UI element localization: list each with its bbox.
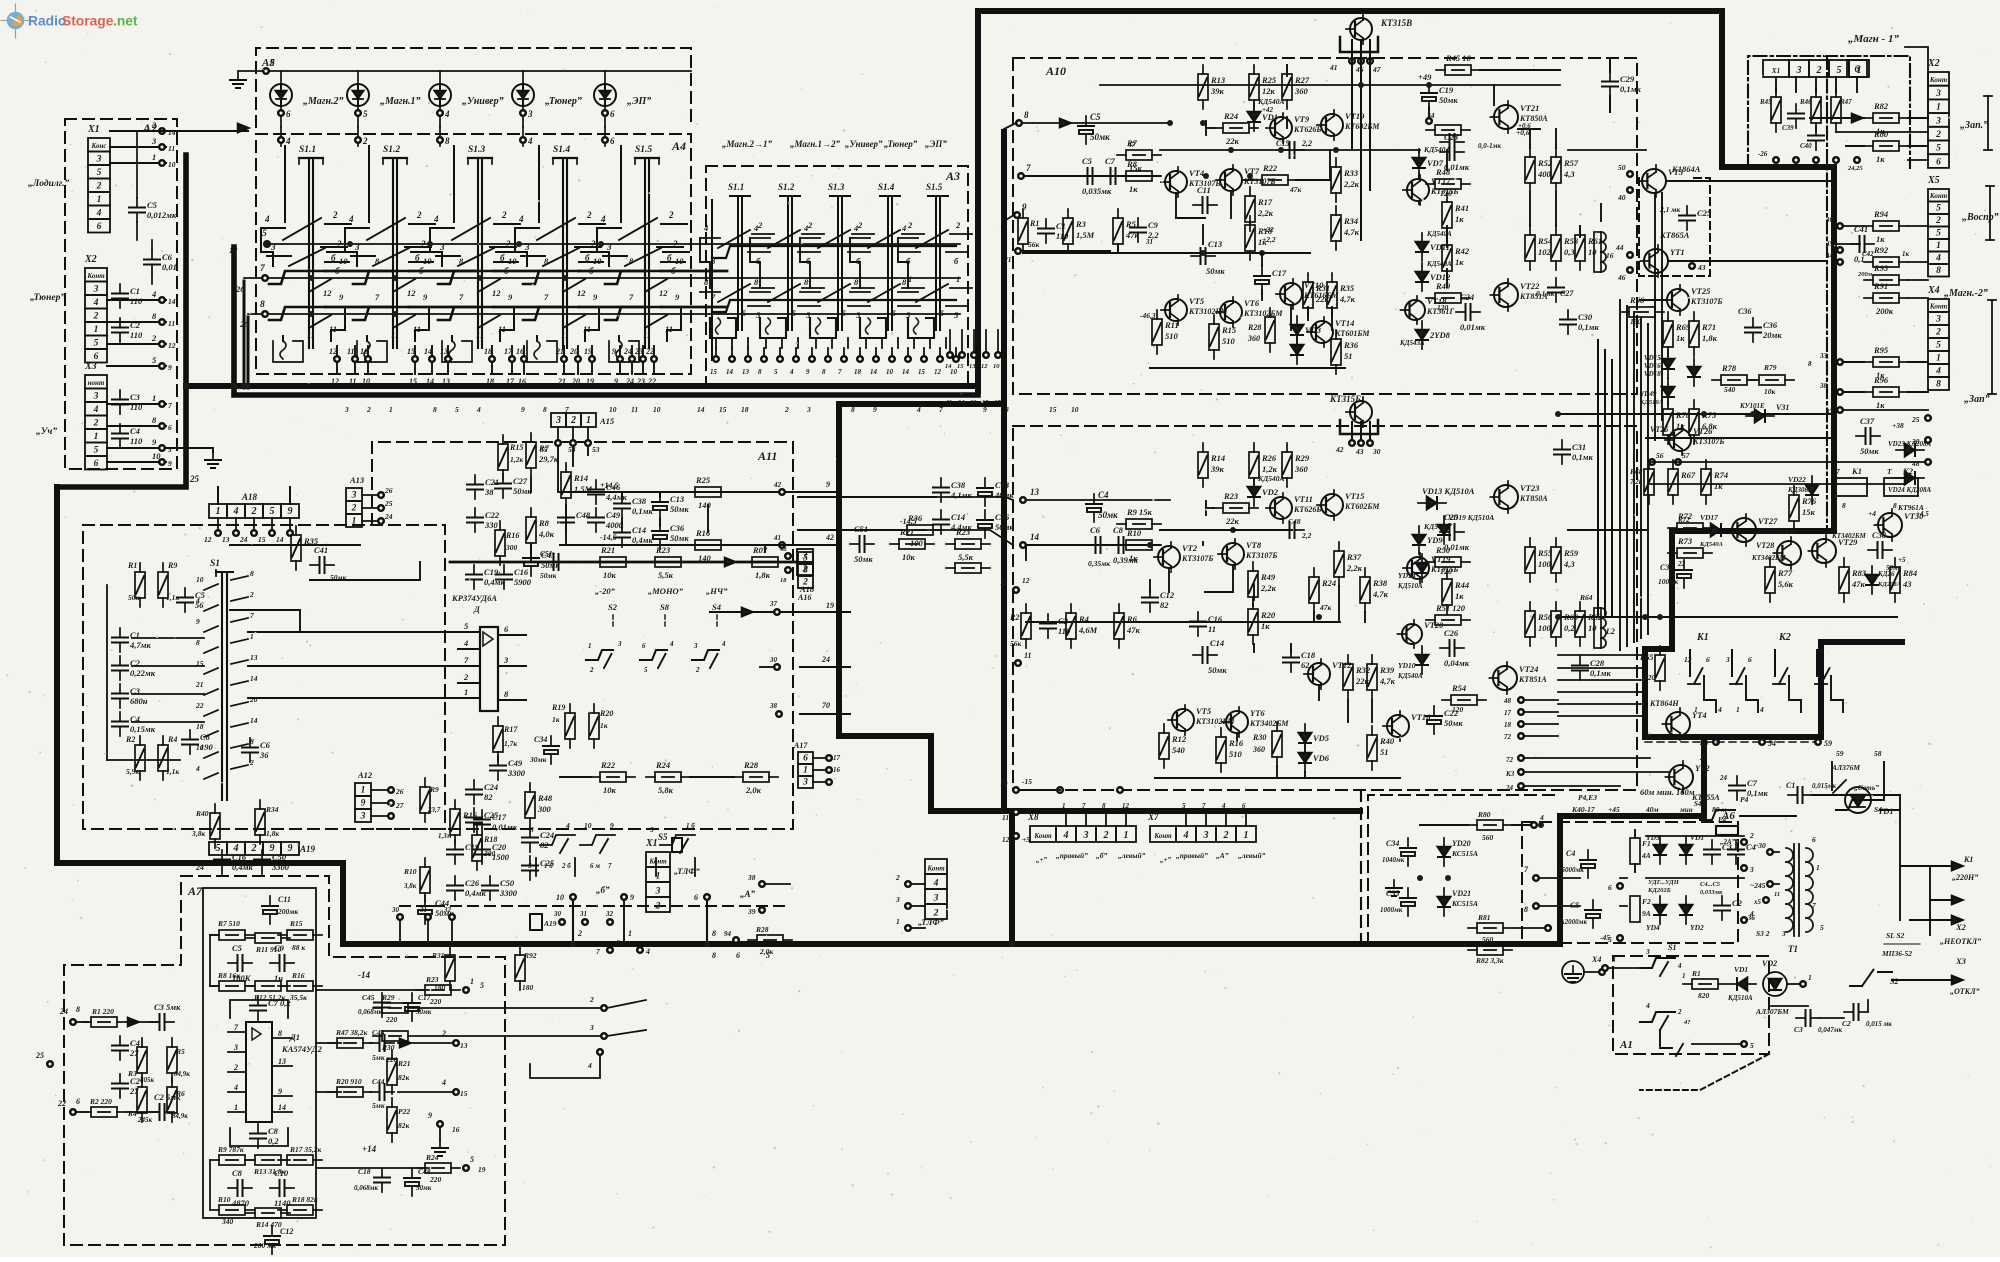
svg-text:C14: C14 (1210, 638, 1224, 648)
svg-text:нонт: нонт (88, 379, 105, 387)
svg-text:КТ3107Б: КТ3107Б (1245, 551, 1277, 560)
svg-text:1: 1 (1124, 830, 1129, 841)
svg-text:9: 9 (873, 405, 877, 414)
resistor R71 (1689, 312, 1718, 356)
svg-text:-46,3: -46,3 (1140, 311, 1156, 320)
capacitor C19 mid (447, 840, 480, 864)
svg-text:43: 43 (1902, 579, 1912, 589)
transistor VT26 (1650, 425, 1724, 455)
capacitor C4 ch2 (1086, 490, 1118, 522)
svg-text:5: 5 (94, 339, 99, 349)
LED VD4 indicator (512, 71, 582, 127)
svg-text:X4: X4 (1927, 285, 1940, 296)
svg-text:4: 4 (1221, 802, 1226, 810)
capacitor C51 rail (540, 549, 568, 580)
resistor R36 r (898, 513, 942, 548)
resistor R18 a14col (472, 826, 497, 870)
svg-text:C14: C14 (951, 512, 965, 522)
svg-text:2: 2 (151, 333, 157, 343)
svg-text:0,2: 0,2 (1564, 623, 1575, 633)
svg-text:2: 2 (251, 506, 257, 517)
svg-text:12: 12 (659, 288, 668, 298)
svg-text:R23: R23 (1223, 491, 1239, 501)
svg-text:„ТЛФ”: „ТЛФ” (918, 917, 945, 927)
svg-text:44: 44 (1615, 243, 1624, 252)
resistor R94 (1825, 209, 1928, 244)
svg-text:КД510А: КД510А (1639, 399, 1664, 406)
capacitor C2 a7 (112, 1074, 141, 1098)
connector A17 (793, 741, 813, 788)
svg-text:40: 40 (1699, 739, 1708, 748)
svg-text:КТ602БМ: КТ602БМ (1344, 122, 1380, 131)
svg-text:A7: A7 (187, 884, 203, 898)
svg-text:4000: 4000 (605, 520, 624, 530)
svg-text:4: 4 (96, 209, 102, 219)
svg-text:R47 38,2к: R47 38,2к (335, 1028, 368, 1037)
svg-text:24: 24 (1505, 784, 1514, 792)
svg-text:14: 14 (424, 347, 432, 356)
svg-text:R9: R9 (167, 561, 177, 570)
svg-text:25: 25 (384, 499, 393, 508)
svg-text:10: 10 (1588, 623, 1597, 633)
pin 6 psu (1608, 883, 1623, 892)
svg-text:4: 4 (600, 214, 606, 224)
thick border A2 right edge (57, 155, 186, 487)
svg-text:R9: R9 (429, 785, 439, 794)
connector X3 left (84, 361, 107, 470)
wires ladder to IC (248, 632, 458, 698)
label Уч (36, 427, 57, 437)
capacitor C4 a7 (150, 1092, 181, 1120)
svg-text:Р4,Е3: Р4,Е3 (1578, 793, 1597, 802)
svg-text:10: 10 (675, 256, 684, 266)
svg-text:94: 94 (724, 930, 732, 938)
svg-text:110: 110 (130, 330, 143, 340)
svg-text:4: 4 (93, 298, 99, 308)
diode VD14 (1397, 554, 1428, 590)
svg-text:VT15: VT15 (1345, 491, 1365, 501)
svg-text:2: 2 (1749, 831, 1754, 840)
switch A3 S1.2 (750, 182, 824, 348)
pins 2 1 bus right (1057, 787, 1123, 793)
capacitor C10 a7 (270, 1168, 294, 1208)
svg-text:2: 2 (93, 419, 99, 429)
svg-text:8: 8 (278, 1029, 282, 1038)
capacitor C49 a14 (588, 508, 624, 532)
svg-text:2: 2 (784, 405, 789, 414)
transistor VT2 drv (1665, 761, 1720, 802)
pins right psu (1741, 831, 1754, 923)
capacitor C3 s2 (1794, 1010, 1843, 1034)
svg-text:VT4: VT4 (1189, 168, 1204, 178)
svg-text:100: 100 (1538, 623, 1552, 633)
svg-text:R17: R17 (1257, 197, 1273, 207)
svg-text:2,2к: 2,2к (1260, 583, 1277, 593)
capacitor C6 ch1 (1078, 156, 1112, 196)
svg-text:VD19 КД510А: VD19 КД510А (1448, 513, 1494, 522)
svg-text:С25: С25 (1697, 208, 1712, 218)
svg-text:A3: A3 (945, 169, 960, 183)
svg-text:82: 82 (484, 792, 493, 802)
svg-text:С12: С12 (280, 1227, 293, 1236)
svg-text:R57: R57 (1563, 158, 1579, 168)
svg-text:R71: R71 (1701, 322, 1716, 332)
transistor VT28 (1751, 537, 1801, 569)
svg-text:5: 5 (97, 168, 102, 178)
svg-text:С51: С51 (540, 549, 553, 558)
svg-text:26: 26 (395, 787, 404, 796)
svg-text:8: 8 (433, 405, 437, 414)
transistor VT8 ch2 (1218, 539, 1277, 569)
resistor R30 ch2 (1252, 722, 1282, 766)
svg-text:15к: 15к (1802, 507, 1816, 517)
svg-text:13: 13 (278, 1057, 286, 1066)
svg-text:11: 11 (391, 330, 399, 340)
wire minus145 rail (560, 533, 841, 545)
wires C1-C4 to S1 (132, 638, 204, 722)
svg-text:3: 3 (1749, 865, 1754, 874)
svg-text:17: 17 (506, 377, 515, 386)
switch S1.3 upper (430, 145, 522, 348)
svg-text:1: 1 (588, 642, 592, 650)
resistor R48 (1426, 167, 1470, 198)
svg-text:54: 54 (568, 445, 576, 454)
svg-text:50мк: 50мк (1206, 266, 1225, 276)
svg-text:VT26: VT26 (1650, 425, 1668, 434)
label pin 25 (189, 474, 200, 484)
svg-text:0,15мк: 0,15мк (130, 724, 156, 734)
svg-text:„левый”: „левый” (1118, 851, 1146, 860)
wires right edge long (1648, 410, 1928, 484)
svg-text:10: 10 (362, 377, 370, 386)
svg-text:C8: C8 (268, 1126, 279, 1136)
pin 24 a7 (59, 1005, 88, 1025)
resistor R47bis (1426, 125, 1470, 135)
capacitor C14 ch2 (1193, 638, 1227, 675)
svg-text:9: 9 (806, 368, 810, 376)
svg-text:8: 8 (445, 136, 450, 146)
svg-text:120: 120 (1440, 189, 1452, 198)
svg-text:3,8к: 3,8к (403, 882, 417, 890)
svg-text:110: 110 (130, 436, 143, 446)
resistor R9 ch2 (1117, 507, 1161, 529)
svg-text:R39: R39 (1379, 665, 1395, 675)
resistor R2 ch2 (1009, 604, 1031, 648)
A15 pins (540, 427, 600, 454)
capacitor C41 mid (310, 545, 347, 582)
svg-text:1,1к: 1,1к (166, 767, 179, 776)
svg-text:1: 1 (1062, 802, 1066, 810)
svg-text:560: 560 (1482, 935, 1494, 944)
svg-text:14: 14 (276, 535, 284, 544)
svg-text:C36: C36 (995, 512, 1010, 522)
svg-text:C2: C2 (130, 1076, 141, 1086)
svg-text:R54: R54 (1451, 683, 1466, 693)
svg-text:6: 6 (286, 109, 291, 119)
svg-text:C37: C37 (1860, 416, 1875, 426)
resistor R49b ch2 (1248, 562, 1277, 606)
svg-text:55: 55 (540, 445, 548, 454)
svg-text:К40-17: К40-17 (1571, 805, 1595, 814)
svg-text:C19: C19 (1439, 85, 1454, 95)
svg-text:50мк: 50мк (1208, 665, 1227, 675)
svg-text:1000мк: 1000мк (1380, 906, 1403, 914)
svg-text:30: 30 (769, 656, 778, 664)
svg-text:КТ851А: КТ851А (1518, 675, 1547, 684)
svg-text:13: 13 (222, 535, 230, 544)
svg-text:„Зап.”: „Зап.” (1960, 120, 1988, 131)
resistor R12 ch2 (1159, 724, 1187, 768)
svg-text:9: 9 (630, 893, 634, 902)
svg-text:1,8к: 1,8к (1702, 333, 1718, 343)
svg-text:C5: C5 (1090, 112, 1101, 122)
label C4C5 (1700, 881, 1723, 896)
svg-text:Конт: Конт (86, 272, 105, 280)
svg-text:2: 2 (589, 666, 594, 674)
svg-text:С17: С17 (492, 812, 507, 822)
wires b to bus (573, 900, 716, 944)
svg-text:360: 360 (1294, 86, 1309, 96)
svg-text:КД540А: КД540А (1426, 260, 1452, 268)
resistor R45 (1436, 53, 1560, 75)
svg-text:59: 59 (1836, 749, 1844, 758)
capacitor C1 ch1 (1038, 219, 1069, 243)
capacitor C3 psu (1704, 840, 1733, 864)
pin 10 ch1 (1003, 248, 1110, 264)
capacitor C8 mid (182, 730, 214, 754)
svg-text:0,1мк: 0,1мк (1578, 322, 1599, 332)
svg-text:C38: C38 (1872, 530, 1887, 540)
svg-text:5: 5 (792, 309, 796, 318)
svg-text:510: 510 (1222, 336, 1236, 346)
svg-text:C1: C1 (1786, 781, 1795, 790)
resistor R4 mid (158, 735, 179, 780)
svg-text:1: 1 (1808, 973, 1812, 982)
svg-text:„Магн.2→1”: „Магн.2→1” (722, 139, 772, 149)
module A10 lower channel outline (1013, 426, 1637, 790)
bracket magn2 (1988, 300, 1996, 394)
wire A3 left edge (711, 200, 713, 360)
svg-text:41: 41 (773, 534, 781, 542)
svg-text:4: 4 (565, 821, 570, 830)
svg-text:0,015мк: 0,015мк (1812, 782, 1837, 790)
svg-text:56к: 56к (1010, 639, 1022, 648)
svg-text:4,7к: 4,7к (1379, 676, 1396, 686)
svg-text:540: 540 (1172, 745, 1186, 755)
capacitor C33 (1658, 560, 1692, 588)
svg-text:1: 1 (956, 274, 960, 284)
svg-text:10: 10 (609, 405, 617, 414)
capacitor C36 rail (652, 521, 689, 549)
switch S2 -20 (586, 586, 622, 674)
svg-text:2: 2 (1816, 65, 1822, 76)
svg-text:8: 8 (76, 1005, 80, 1014)
svg-text:18: 18 (1504, 721, 1512, 729)
resistor R84 (1890, 558, 1917, 602)
svg-text:10: 10 (339, 256, 348, 266)
resistor R34 mid (255, 800, 279, 844)
capacitor C45 a7 (358, 993, 390, 1017)
svg-text:47к: 47к (1289, 185, 1302, 194)
svg-text:C41: C41 (1854, 224, 1868, 234)
svg-text:16: 16 (518, 377, 526, 386)
svg-text:0,012мк: 0,012мк (147, 210, 177, 220)
resistor R23 a7 (416, 975, 484, 1006)
svg-text:340: 340 (221, 1217, 234, 1226)
svg-text:2: 2 (1935, 130, 1941, 140)
svg-text:4,7к: 4,7к (1343, 227, 1360, 237)
svg-text:300: 300 (505, 543, 518, 552)
svg-text:1: 1 (1244, 830, 1249, 841)
svg-text:R16: R16 (505, 531, 519, 540)
svg-text:R28: R28 (1247, 323, 1261, 332)
svg-text:КА574УД2: КА574УД2 (281, 1044, 323, 1054)
svg-text:10: 10 (1000, 779, 1008, 788)
wire a14 exit3 (769, 701, 850, 717)
capacitor C28 (1572, 656, 1611, 680)
svg-text:КД510А: КД510А (1397, 582, 1423, 590)
switch S6 (649, 822, 695, 876)
relay K2 (1884, 466, 1929, 518)
wire LED2 to A4 (355, 127, 368, 146)
svg-text:C6: C6 (1090, 525, 1101, 535)
wire ch1 rail4647 (1352, 58, 1370, 240)
resistor R48 mid (525, 783, 553, 827)
svg-text:R15: R15 (289, 919, 303, 928)
svg-text:8: 8 (1808, 360, 1812, 368)
pins 38 39 (747, 873, 790, 916)
resistor R17 ch1 (1245, 187, 1274, 231)
svg-text:УДГ...УДН: УДГ...УДН (1648, 879, 1680, 886)
svg-text:15: 15 (719, 405, 727, 414)
svg-text:„Магн - 1”: „Магн - 1” (1848, 33, 1899, 45)
svg-text:X1: X1 (645, 838, 658, 849)
wire mid right rail2 (1646, 437, 1830, 439)
svg-text:2: 2 (1103, 830, 1109, 841)
resistor R7 a7 (210, 919, 254, 940)
bracket vospr (1986, 186, 1994, 240)
svg-text:6: 6 (1936, 157, 1941, 167)
resistor R7 a14 (526, 433, 559, 477)
svg-text:13: 13 (1030, 487, 1040, 497)
svg-text:КУ101Е: КУ101Е (1739, 402, 1765, 410)
svg-text:„ЭП”: „ЭП” (627, 96, 651, 107)
svg-text:X3: X3 (84, 361, 97, 372)
svg-text:23,7: 23,7 (427, 806, 441, 814)
capacitor C8b a7 (228, 1168, 252, 1208)
svg-text:7: 7 (596, 947, 600, 956)
VT3 VT1 dashed box (1639, 178, 1710, 276)
svg-text:1,8к: 1,8к (755, 570, 771, 580)
wire ch2 base rail (1026, 621, 1340, 623)
svg-text:1к: 1к (1902, 250, 1910, 258)
svg-text:18: 18 (854, 368, 862, 376)
wires X1 to A2 edge (110, 120, 176, 169)
resistor R21 r (890, 527, 934, 562)
module A6 outline (1522, 810, 1738, 943)
thick border right module top (978, 11, 1834, 737)
svg-text:18: 18 (486, 377, 494, 386)
diode VD19b (1639, 378, 1674, 406)
svg-text:1: 1 (1936, 354, 1941, 364)
capacitor C44b (417, 896, 454, 924)
resistor R2 a7 (82, 1097, 158, 1117)
svg-text:70: 70 (822, 701, 830, 710)
svg-text:-26: -26 (1758, 150, 1768, 158)
svg-text:VD5: VD5 (1313, 733, 1330, 743)
svg-text:А19: А19 (543, 919, 557, 928)
svg-text:КТ602БМ: КТ602БМ (1344, 502, 1380, 511)
svg-text:20: 20 (571, 377, 580, 386)
wire fanout to K1 (1558, 655, 1645, 716)
svg-text:4: 4 (645, 947, 650, 956)
resistor R24 ch1 (1206, 111, 1258, 146)
svg-text:10: 10 (993, 363, 1000, 370)
svg-text:А17: А17 (793, 741, 808, 750)
svg-text:17: 17 (994, 399, 1001, 406)
transistor VT19 ch1 (1317, 110, 1380, 140)
svg-text:VT19: VT19 (1345, 111, 1365, 121)
resistor R80r (1846, 129, 1928, 164)
svg-text:X1: X1 (1771, 67, 1780, 75)
transistor VT30 (1868, 503, 1924, 541)
capacitor C13 r (977, 478, 1014, 506)
svg-text:22: 22 (645, 347, 654, 356)
svg-text:4,7к: 4,7к (1339, 294, 1356, 304)
svg-text:R78: R78 (1721, 363, 1737, 373)
svg-text:31: 31 (419, 906, 427, 914)
svg-text:10: 10 (1071, 405, 1079, 414)
Magn-1 boundary dash-dot (1826, 56, 1828, 531)
svg-text:R80: R80 (1477, 810, 1491, 819)
thick bus A4 bottom (186, 383, 978, 389)
capacitor C2 mid (112, 656, 156, 680)
svg-text:5мк: 5мк (372, 1053, 385, 1062)
resistor R22 ch1 (1253, 163, 1302, 194)
svg-text:X2: X2 (84, 254, 97, 265)
capacitor C2 s2 (1842, 1004, 1892, 1028)
pin 8 ch1 (1004, 110, 1029, 129)
svg-text:VT6: VT6 (1244, 298, 1260, 308)
svg-text:C3 5мк: C3 5мк (154, 1002, 181, 1012)
switch A3 S1.4 (850, 182, 924, 348)
svg-text:КД540А: КД540А (1257, 474, 1284, 483)
svg-text:14: 14 (1030, 532, 1040, 542)
wire a11 h3 (230, 610, 300, 632)
transistor VT2 ch2 (1154, 542, 1213, 572)
svg-text:„НЧ”: „НЧ” (706, 586, 728, 596)
svg-text:30мк: 30мк (529, 755, 547, 764)
capacitor C10 (1421, 83, 1458, 124)
resistor R83 (1839, 558, 1867, 602)
svg-text:1040мк: 1040мк (1382, 856, 1405, 864)
svg-text:Конт: Конт (1929, 303, 1948, 311)
svg-text:1: 1 (234, 1103, 238, 1112)
svg-text:7: 7 (168, 401, 172, 410)
labels A b mid (712, 889, 770, 960)
dashed wire S5S6 (400, 838, 790, 906)
wire ch1 mid rail (1160, 139, 1420, 158)
svg-text:С38: С38 (632, 496, 647, 506)
transistor VT6 ch2 (1222, 707, 1289, 737)
svg-text:27: 27 (395, 801, 404, 810)
svg-text:11: 11 (1002, 813, 1009, 822)
svg-text:47к: 47к (1126, 625, 1141, 635)
svg-text:C13: C13 (1208, 239, 1223, 249)
svg-text:C49: C49 (606, 510, 621, 520)
svg-text:R14: R14 (573, 473, 588, 483)
svg-text:10: 10 (886, 368, 894, 376)
